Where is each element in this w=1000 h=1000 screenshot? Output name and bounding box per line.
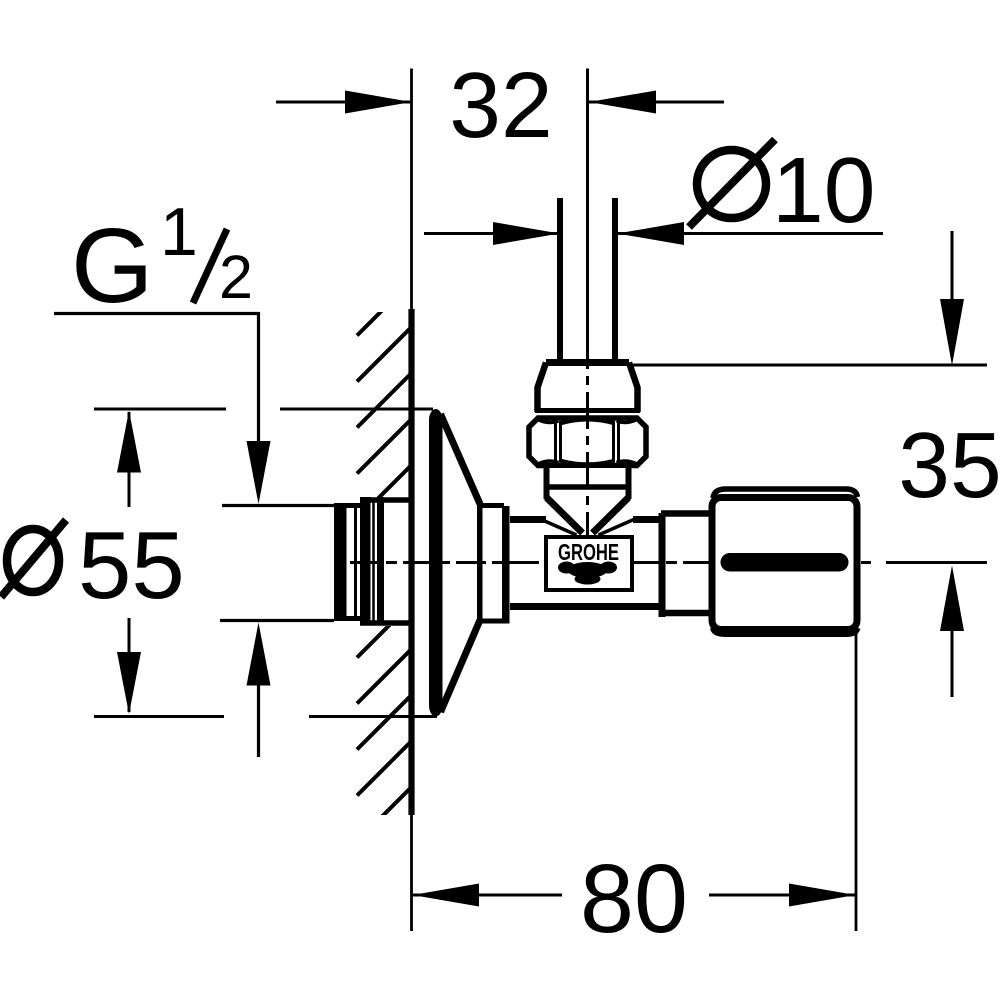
- svg-text:55: 55: [78, 512, 185, 619]
- svg-text:10: 10: [772, 138, 875, 242]
- svg-text:G: G: [71, 207, 153, 325]
- svg-text:GROHE: GROHE: [558, 539, 619, 565]
- svg-text:80: 80: [580, 844, 688, 953]
- svg-text:1: 1: [160, 194, 198, 270]
- svg-text:2: 2: [219, 243, 253, 311]
- svg-text:32: 32: [449, 53, 552, 157]
- svg-text:35: 35: [898, 413, 1000, 517]
